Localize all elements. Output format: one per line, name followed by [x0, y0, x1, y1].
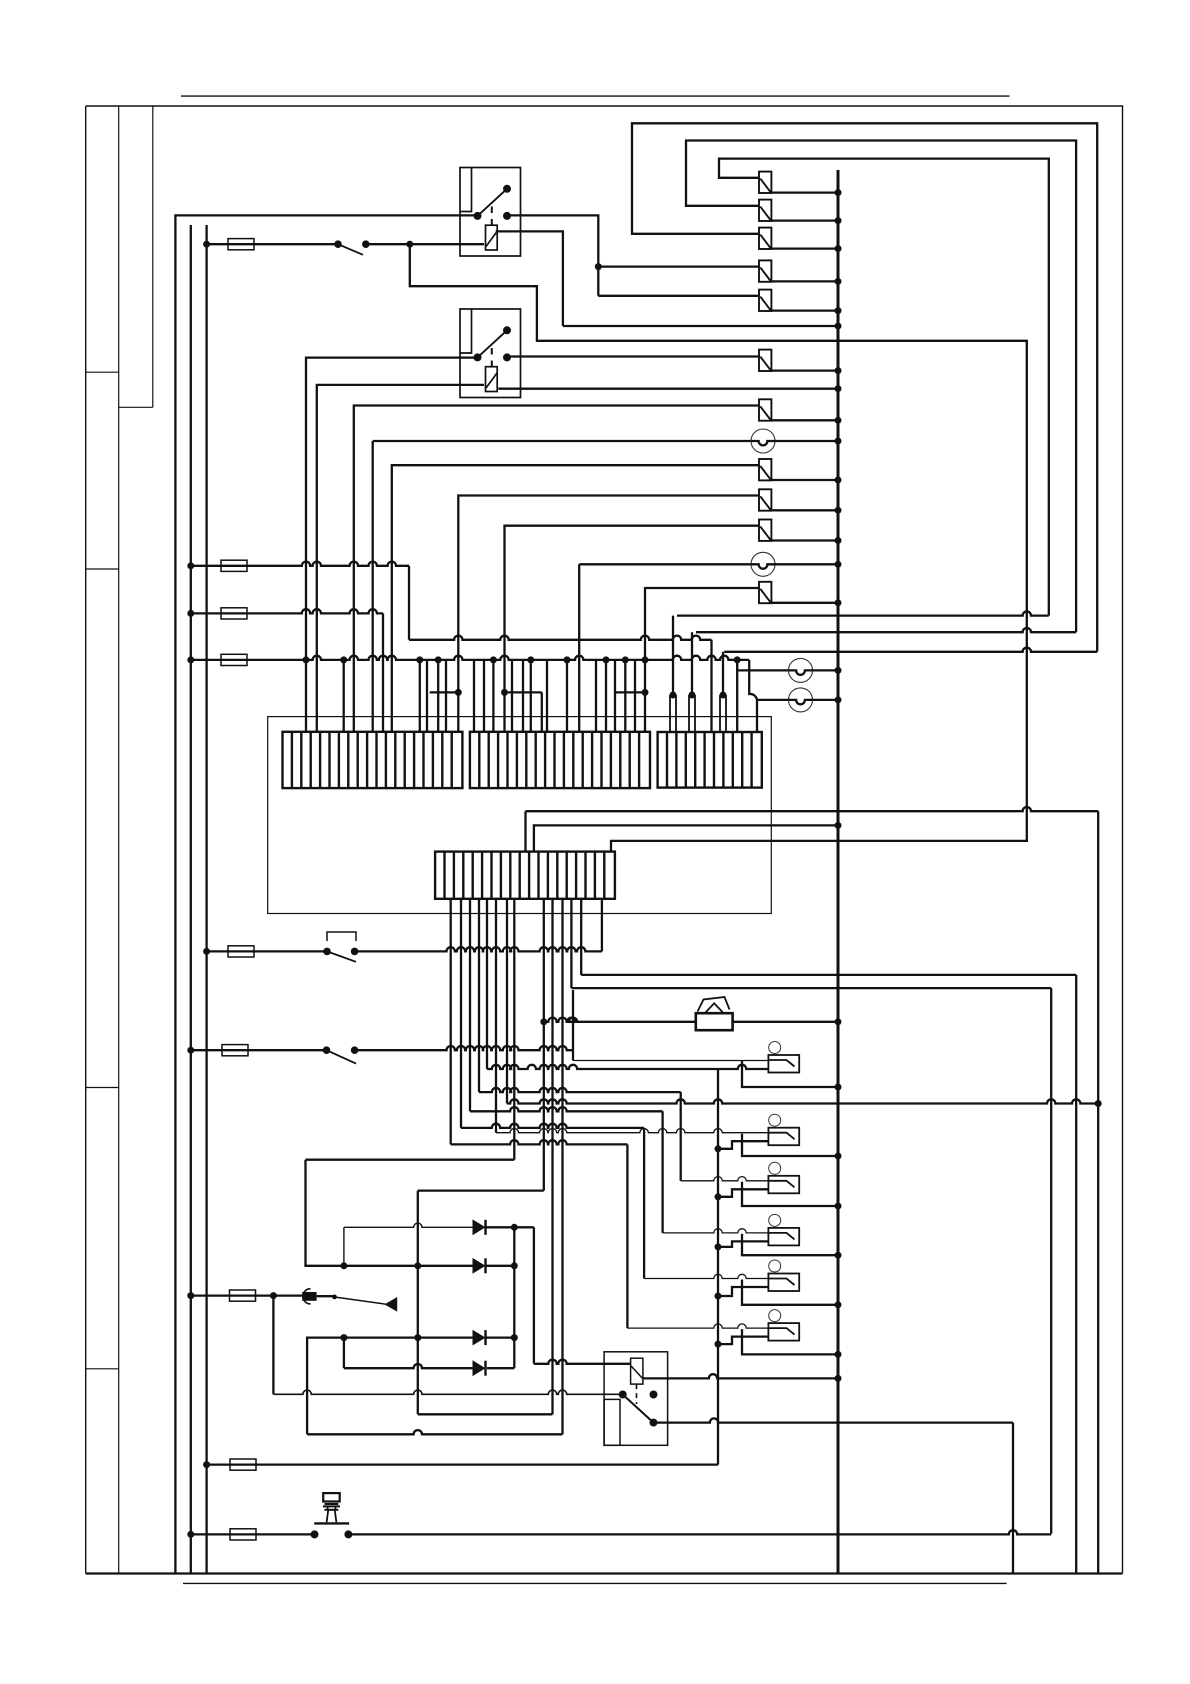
lamp L1 wire [373, 440, 753, 442]
relay K1 [460, 168, 521, 257]
wire K2 right contact to c6 [507, 355, 759, 357]
fuse F2 [221, 560, 247, 571]
connector c7 [759, 399, 771, 420]
wire K2 left contact from x=306 [306, 358, 477, 732]
wire diode feed L [306, 1160, 344, 1266]
lamp unit U1 indicator [769, 1042, 781, 1054]
wire riser x=571.4 to y=988.1 [570, 899, 572, 988]
wire riser x=581.2 to y=974.9 [580, 899, 582, 975]
title underline top [181, 95, 1010, 97]
wire c9 entry [458, 496, 759, 732]
lamp unit U5 box [768, 1274, 799, 1292]
wire F3 branch to comb1 [382, 613, 384, 731]
wire F9 row y=1534.4 with button [187, 1531, 194, 1538]
bundle wires from comb4 [450, 899, 452, 1145]
wire c10 exit to bus [771, 539, 838, 541]
diode D1 [473, 1220, 485, 1234]
lamp L4 [789, 688, 813, 712]
relay K3 box [604, 1352, 668, 1446]
connector c1 [759, 172, 771, 193]
wire c9 exit to bus [771, 509, 838, 511]
lamp unit U3 indicator [769, 1162, 781, 1174]
wire F4 ground row y=659.9 [187, 656, 194, 663]
wire F4 corner to comb3 [749, 660, 757, 732]
wire to relay K3 switch [273, 1390, 622, 1394]
wire to lamp unit3 feed [680, 1092, 682, 1181]
wire riser x=552.5 [551, 899, 553, 1415]
bridge a [430, 691, 460, 693]
wire chain feed from comb4 [486, 899, 488, 1069]
wire horn/turn riser x=543.8 [543, 899, 545, 1191]
wire c7 entry [354, 406, 759, 732]
wire to connector c4 [598, 265, 759, 267]
connector c9 [759, 489, 771, 510]
horn H1 [696, 1013, 733, 1030]
wire unit5 thin feed horizontal [644, 1274, 768, 1278]
wire F3 row y=613.4 [187, 610, 194, 617]
wire diode4 cathode [487, 1367, 514, 1369]
wire K2 coil right to bus [498, 388, 838, 390]
bus wire A x=175.4 with corner to relay K1 [175, 215, 477, 1573]
title underline bottom [183, 1582, 1007, 1584]
wire F1 row y=244.2 [207, 243, 338, 245]
wire U4 output to bus [742, 1234, 838, 1255]
wire U5 feed from chain [715, 1293, 722, 1300]
wire U3 feed from chain [715, 1193, 722, 1200]
wire U2 feed from chain [715, 1145, 722, 1152]
main bus bar x=838 [837, 170, 840, 1574]
wire y=651.8 to comb3 stub [724, 648, 1097, 652]
wire F8 row y=1464.6 [203, 1461, 210, 1468]
wire c8 entry [392, 465, 759, 732]
wire diode row2 [344, 1265, 473, 1267]
ecu outline box [268, 717, 772, 914]
margin divider 2 [86, 568, 119, 570]
connector c10 [759, 520, 771, 541]
connector c4 [759, 260, 771, 281]
wire diode row3 [307, 1338, 344, 1435]
wire y=615.6 to comb3 stub [677, 611, 1049, 615]
wire diode junction riser x=417.8 [417, 1191, 419, 1415]
wire U1 output to bus [742, 1061, 838, 1087]
wire K2 coil to comb1 [317, 385, 484, 732]
fuse F9 [230, 1529, 256, 1540]
wire entry c1 nest [719, 159, 1049, 616]
wire unit2 thin feed [495, 899, 497, 1133]
ground stubs to combs [303, 656, 310, 663]
lamp L3 wire [737, 660, 790, 671]
wire bottom loop y=1414.3 [418, 1413, 553, 1415]
wire unit4 thin feed horizontal [663, 1229, 769, 1233]
lamp unit U2 box [768, 1128, 799, 1146]
connector c2 [759, 200, 771, 221]
wire feed chain x=718 [717, 1069, 719, 1465]
wire F5 row y=951.4 [203, 948, 210, 955]
push button S5 [323, 1493, 340, 1501]
lamp unit U1 box [768, 1055, 799, 1073]
wire horn feed [544, 1018, 697, 1022]
connector comb X4 [435, 852, 615, 899]
switch S2 bracket [327, 932, 356, 941]
connector comb X2 [470, 732, 650, 788]
wire c10 entry [505, 526, 760, 732]
wire c1 exit to bus [771, 191, 838, 193]
lamp unit U6 indicator [769, 1310, 781, 1322]
wire horn to bus [732, 1021, 838, 1023]
wire unit1 thin riser x=573 [572, 990, 574, 1061]
wire button to right riser [348, 1530, 1051, 1534]
lever switch S4 [302, 1292, 316, 1301]
margin column line 2 [152, 106, 154, 407]
margin divider 1 [86, 371, 119, 373]
relay K3 coil [631, 1358, 643, 1384]
relay K2 [460, 309, 521, 398]
wire U6 output to bus [742, 1329, 838, 1354]
bridge c [615, 691, 645, 693]
comb3 double stubs [670, 692, 677, 699]
wire F2 row y=565.8 [187, 562, 194, 569]
wire K1 right contact to connector column [507, 215, 598, 295]
lamp L3 [789, 658, 813, 682]
border bottom [86, 1572, 1123, 1574]
connector c3 [759, 228, 771, 249]
wire U3 output to bus [742, 1182, 838, 1206]
lamp L4 wire [757, 699, 790, 701]
relay K3 dashed link [636, 1384, 638, 1404]
wire coil K3 feed from diode row [533, 1227, 535, 1364]
lamp unit U2 indicator [769, 1114, 781, 1126]
wire unit3 thin feed horizontal [681, 1177, 769, 1181]
wire c11 exit to bus [771, 602, 838, 604]
wire F7 row y=1295.6 [187, 1292, 194, 1299]
wire K1 coil to bus [496, 231, 563, 326]
wire to lamp unit4 feed [661, 1111, 663, 1233]
page border [86, 106, 1123, 1574]
wire y=632.2 to comb3 stub [696, 628, 1076, 632]
lamp L1 [751, 429, 775, 453]
lamp L1 riser [372, 441, 374, 732]
wire bottom loop y=1434.3 [307, 1430, 562, 1434]
margin step [119, 406, 153, 408]
wire riser x=601.9 switch row [601, 899, 603, 952]
wire F1 branch down and right loop [410, 244, 1027, 851]
fuse F5 [228, 946, 254, 957]
wire c7 exit to bus [771, 419, 838, 421]
switch S3 blade [327, 1050, 357, 1063]
diode D3 [473, 1331, 485, 1345]
wire c8 exit to bus [771, 479, 838, 481]
wire diode cathode link [513, 1227, 515, 1337]
wire to lamp unit6 feed [626, 1144, 628, 1328]
wire F6 row y=1050.2 [187, 1047, 194, 1054]
fuse F1 [228, 239, 254, 250]
wire lamp L2 from comb2 [578, 564, 580, 732]
fuse F4 [221, 654, 247, 665]
wire c4 exit to bus [771, 280, 838, 282]
wire comb4 feed y=811.2 [524, 811, 526, 851]
bus wire C x=206.6 [205, 225, 207, 1574]
fuse F6 [222, 1045, 248, 1056]
wire unit6 thin feed horizontal [627, 1324, 768, 1328]
wire U2 output to bus [742, 1134, 838, 1156]
wire to lamp unit5 feed [643, 1128, 645, 1279]
wire to connector c5 [598, 295, 759, 297]
wire diode row4 [343, 1338, 345, 1369]
wire c11 entry [645, 588, 759, 732]
wire K3 output [654, 1418, 1014, 1422]
wire y=1103.5 [506, 899, 508, 1104]
connector comb X3 [658, 732, 762, 788]
lamp unit U6 box [768, 1323, 799, 1341]
wire entry c3 nest [632, 123, 1097, 652]
wire c3 exit to bus [771, 247, 838, 249]
connector c8 [759, 459, 771, 480]
diode D2 [473, 1259, 485, 1273]
margin divider 3 [86, 1087, 119, 1089]
wire S1 to coil K1 [366, 243, 484, 245]
wire diode row1 thin [344, 1223, 473, 1227]
wire U6 feed from chain [715, 1341, 722, 1348]
lamp unit U4 box [768, 1228, 799, 1246]
wire c6 exit to bus [771, 369, 838, 371]
connector comb X1 [283, 732, 463, 788]
switch S1 blade [338, 244, 363, 255]
lamp L2 [751, 552, 775, 576]
wire riser x=562.5 [561, 899, 563, 1435]
lamp unit U4 indicator [769, 1214, 781, 1226]
wire comb4 to diode block x=514.3 [513, 899, 515, 1160]
wire entry c2 nest [686, 141, 1076, 633]
wire S4 branch down [272, 1296, 274, 1395]
wire comb4 feed y=825.4 [534, 825, 838, 851]
relay K3 inner frame [604, 1399, 620, 1445]
margin divider 4 [86, 1368, 119, 1370]
fuse F3 [221, 608, 247, 619]
wire F2 corner down to ground comb [408, 566, 410, 640]
wire c2 exit to bus [771, 219, 838, 221]
fuse F8 [230, 1459, 256, 1470]
lamp unit U3 box [768, 1176, 799, 1194]
switch S2 blade [327, 951, 356, 961]
fuse F7 [230, 1290, 256, 1301]
lamp unit U5 indicator [769, 1260, 781, 1272]
connector c6 [759, 350, 771, 371]
wire coil K3 to bus [643, 1374, 838, 1378]
margin column line 1 [118, 106, 120, 1574]
wire U5 output to bus [742, 1280, 838, 1305]
wire U4 feed from chain [715, 1243, 722, 1250]
bridge b [541, 692, 543, 731]
connector c5 [759, 290, 771, 311]
connector c11 [759, 582, 771, 603]
diode D4 [473, 1361, 485, 1375]
relay K3 contacts [619, 1391, 627, 1399]
bus wire B x=190.8 [190, 225, 192, 1574]
wire c5 exit to bus [771, 309, 838, 311]
